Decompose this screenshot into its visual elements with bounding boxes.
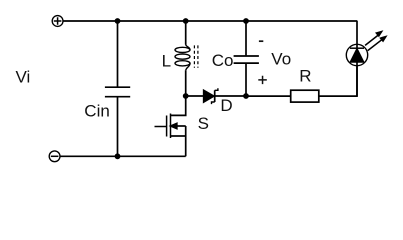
diode D (schottky) [204, 88, 218, 104]
node top-L [183, 18, 189, 24]
wire Co bottom [245, 64, 247, 96]
LED arrow 2 [368, 35, 388, 50]
node switch (L/D/S) [183, 93, 189, 99]
wire diode cathode to output node [215, 95, 246, 97]
wire Co top [245, 21, 247, 55]
resistor R [291, 90, 319, 102]
svg-text:L: L [162, 52, 171, 71]
wire resistor to LED [319, 66, 357, 96]
svg-text:D: D [220, 96, 232, 115]
wire L bottom to switch node [185, 70, 187, 96]
svg-text:Cin: Cin [84, 102, 110, 121]
svg-text:Co: Co [212, 51, 234, 70]
svg-text:S: S [198, 114, 209, 133]
wire LED top [356, 21, 358, 48]
inductor L [175, 45, 198, 71]
terminal plus (Vi+) [52, 16, 63, 27]
wire Cin bottom [117, 97, 119, 156]
svg-text:Vi: Vi [16, 68, 31, 87]
LED arrow 1 [365, 30, 383, 45]
wire top rail [63, 20, 358, 22]
wire bottom rail [60, 155, 186, 157]
label plus [258, 76, 267, 84]
node top-Cin [115, 18, 121, 24]
capacitor Co [234, 56, 259, 63]
wire L top [185, 21, 187, 45]
node bottom-Cin [115, 153, 121, 159]
node top-Co [243, 18, 249, 24]
node output (Co-/R) [243, 93, 249, 99]
terminal minus (Vi-) [49, 151, 60, 162]
wire Cin top [117, 21, 119, 87]
capacitor Cin [105, 87, 130, 97]
svg-text:R: R [299, 67, 311, 86]
label minus [259, 40, 263, 42]
transistor S (nmos) [155, 96, 186, 156]
svg-text:Vo: Vo [271, 49, 291, 68]
wire output to resistor [246, 95, 291, 97]
wire node to diode [186, 95, 204, 97]
LED U1 [346, 44, 367, 96]
